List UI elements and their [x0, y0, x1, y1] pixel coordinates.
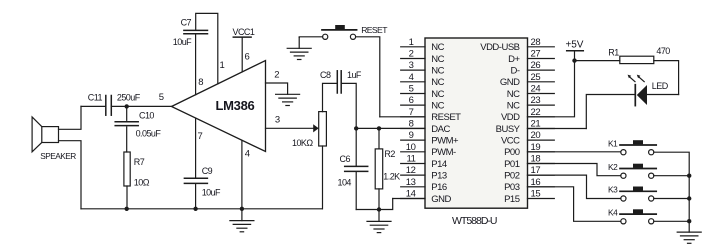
svg-text:16: 16 — [531, 177, 541, 188]
svg-text:NC: NC — [431, 77, 444, 88]
node — [687, 219, 691, 223]
svg-text:LED: LED — [652, 81, 669, 91]
svg-text:C9: C9 — [202, 166, 213, 176]
svg-text:P14: P14 — [431, 159, 447, 170]
svg-text:C10: C10 — [139, 111, 154, 121]
svg-text:17: 17 — [531, 165, 541, 176]
svg-text:VCC: VCC — [501, 135, 520, 146]
svg-text:7: 7 — [409, 107, 414, 118]
svg-text:NC: NC — [431, 65, 444, 76]
node — [193, 207, 197, 211]
wire pin14 gnd — [393, 198, 425, 200]
wire — [59, 141, 82, 209]
node — [687, 174, 691, 178]
svg-text:0.05uF: 0.05uF — [136, 129, 162, 139]
wire — [111, 105, 171, 107]
chip pin numbers right — [531, 37, 541, 200]
ground — [367, 210, 391, 233]
svg-text:D+: D+ — [508, 54, 520, 65]
svg-text:P02: P02 — [504, 170, 520, 181]
svg-text:R7: R7 — [134, 157, 145, 167]
svg-text:C7: C7 — [181, 18, 192, 28]
svg-text:R1: R1 — [608, 48, 619, 58]
wire pin21 busy — [528, 128, 587, 130]
wire pin7 reset — [380, 116, 425, 118]
wire — [654, 198, 689, 200]
potentiometer RP 10K — [319, 83, 337, 208]
wire — [575, 60, 620, 62]
wire pin19 — [528, 151, 621, 153]
svg-text:20: 20 — [531, 130, 541, 141]
svg-text:19: 19 — [531, 142, 541, 153]
power +5V — [567, 51, 584, 61]
IC U2 WT588D-U — [425, 38, 528, 208]
wire — [81, 105, 105, 107]
svg-text:P15: P15 — [504, 194, 520, 205]
svg-text:P03: P03 — [504, 182, 520, 193]
wire DAC node — [356, 127, 425, 129]
wire — [654, 175, 689, 177]
switch RESET — [322, 25, 357, 39]
wire — [356, 199, 393, 210]
svg-text:DAC: DAC — [431, 124, 450, 135]
svg-text:4: 4 — [245, 149, 250, 160]
capacitor C6 — [345, 128, 368, 209]
svg-text:15: 15 — [531, 189, 541, 200]
svg-text:12: 12 — [406, 165, 416, 176]
svg-text:3: 3 — [275, 115, 280, 126]
svg-text:470: 470 — [656, 46, 670, 56]
svg-text:10KΩ: 10KΩ — [292, 138, 313, 148]
svg-text:1uF: 1uF — [347, 70, 362, 80]
node — [354, 126, 358, 130]
svg-text:P00: P00 — [504, 147, 520, 158]
ground — [287, 37, 311, 59]
wire — [299, 36, 322, 39]
resistor R7 — [124, 152, 130, 209]
svg-text:5: 5 — [159, 92, 164, 103]
capacitor C7 — [184, 13, 218, 94]
svg-text:NC: NC — [431, 89, 444, 100]
svg-text:D-: D- — [510, 65, 519, 76]
svg-text:NC: NC — [507, 100, 520, 111]
svg-text:7: 7 — [198, 131, 203, 142]
svg-text:22: 22 — [531, 107, 541, 118]
svg-text:24: 24 — [531, 84, 541, 95]
switch K2 — [620, 164, 656, 179]
wire pin2 — [266, 83, 288, 94]
wire pin22 +5V — [528, 61, 575, 117]
svg-text:P13: P13 — [431, 170, 447, 181]
svg-text:RESET: RESET — [431, 112, 461, 123]
chip inner labels left — [431, 42, 461, 205]
svg-text:11: 11 — [406, 154, 415, 165]
svg-text:C6: C6 — [340, 154, 351, 164]
svg-text:BUSY: BUSY — [496, 124, 521, 135]
svg-text:K1: K1 — [608, 138, 618, 148]
svg-text:14: 14 — [406, 189, 416, 200]
power VCC1 — [233, 37, 251, 72]
LED D1 — [586, 85, 678, 129]
wire pin16 — [528, 187, 621, 222]
svg-text:NC: NC — [431, 100, 444, 111]
svg-text:C11: C11 — [88, 93, 103, 103]
svg-text:9: 9 — [409, 130, 414, 141]
svg-text:10uF: 10uF — [173, 37, 192, 47]
svg-text:10: 10 — [406, 142, 416, 153]
svg-text:28: 28 — [531, 37, 541, 48]
resistor R2 — [375, 128, 383, 209]
svg-text:21: 21 — [531, 119, 541, 130]
svg-text:6: 6 — [409, 95, 414, 106]
svg-text:NC: NC — [431, 54, 444, 65]
svg-text:4: 4 — [409, 72, 414, 83]
svg-text:1: 1 — [409, 37, 414, 48]
svg-text:PWM-: PWM- — [431, 147, 456, 158]
chip pin numbers left — [406, 37, 416, 200]
LED arrows — [628, 75, 645, 82]
wiper arrow — [313, 124, 319, 132]
chip inner labels right — [480, 42, 520, 205]
svg-text:2: 2 — [274, 70, 279, 81]
node — [377, 126, 381, 130]
svg-text:K4: K4 — [608, 207, 618, 217]
op-amp U1 LM386 — [172, 61, 266, 152]
svg-text:NC: NC — [507, 89, 520, 100]
node — [125, 104, 129, 108]
svg-text:P01: P01 — [504, 159, 520, 170]
svg-text:VCC1: VCC1 — [233, 27, 255, 37]
capacitor C8 — [337, 71, 356, 129]
svg-text:8: 8 — [409, 119, 414, 130]
wire pin18 — [528, 164, 621, 176]
svg-text:GND: GND — [431, 194, 451, 205]
svg-text:K3: K3 — [608, 185, 618, 195]
wire — [654, 61, 679, 95]
svg-text:VDD-USB: VDD-USB — [480, 42, 519, 53]
svg-text:10Ω: 10Ω — [134, 177, 150, 187]
svg-text:GND: GND — [500, 77, 520, 88]
node — [687, 196, 691, 200]
wire pin17 — [528, 175, 621, 198]
ground — [276, 94, 300, 105]
wire pin4 — [241, 141, 243, 209]
svg-text:SPEAKER: SPEAKER — [40, 151, 76, 161]
svg-text:NC: NC — [431, 42, 444, 53]
wire — [654, 220, 689, 222]
svg-text:2: 2 — [409, 49, 414, 60]
svg-text:5: 5 — [409, 84, 414, 95]
node — [240, 207, 244, 211]
svg-text:25: 25 — [531, 72, 541, 83]
svg-text:K2: K2 — [608, 162, 618, 172]
switch K1 — [620, 140, 656, 155]
svg-text:1: 1 — [220, 60, 225, 71]
svg-text:LM386: LM386 — [216, 98, 255, 113]
ground — [677, 221, 701, 243]
wire key rail — [654, 152, 689, 221]
svg-text:1.2K: 1.2K — [383, 172, 400, 182]
svg-text:104: 104 — [338, 178, 352, 188]
resistor R1 — [620, 56, 654, 63]
wire bottom rail — [81, 208, 322, 210]
svg-text:6: 6 — [245, 51, 250, 62]
node — [125, 207, 129, 211]
svg-text:26: 26 — [531, 60, 541, 71]
svg-text:+5V: +5V — [566, 40, 584, 51]
svg-text:18: 18 — [531, 154, 541, 165]
svg-text:3: 3 — [409, 60, 414, 71]
svg-text:13: 13 — [406, 177, 416, 188]
svg-text:PWM+: PWM+ — [431, 135, 459, 146]
node — [572, 58, 576, 62]
svg-text:R2: R2 — [384, 149, 395, 159]
switch K3 — [620, 187, 656, 202]
switch K4 — [620, 209, 656, 224]
svg-text:WT588D-U: WT588D-U — [452, 215, 497, 227]
capacitor C11 — [106, 96, 112, 116]
svg-text:250uF: 250uF — [117, 93, 141, 103]
svg-text:VDD: VDD — [501, 112, 520, 123]
wire — [356, 37, 380, 117]
svg-text:P16: P16 — [431, 182, 447, 193]
right pin stubs — [528, 47, 555, 199]
wire pin3 — [266, 127, 314, 129]
left pin stubs — [401, 47, 425, 199]
ground — [230, 209, 254, 232]
svg-text:27: 27 — [531, 49, 541, 60]
svg-text:23: 23 — [531, 95, 541, 106]
node — [377, 207, 381, 211]
svg-text:8: 8 — [198, 77, 203, 88]
speaker LS — [32, 117, 58, 152]
capacitor C9 — [184, 118, 207, 209]
svg-text:C8: C8 — [320, 70, 331, 80]
wire — [59, 106, 82, 129]
svg-text:10uF: 10uF — [202, 188, 221, 198]
svg-text:RESET: RESET — [361, 25, 388, 35]
capacitor C10 — [115, 106, 138, 152]
